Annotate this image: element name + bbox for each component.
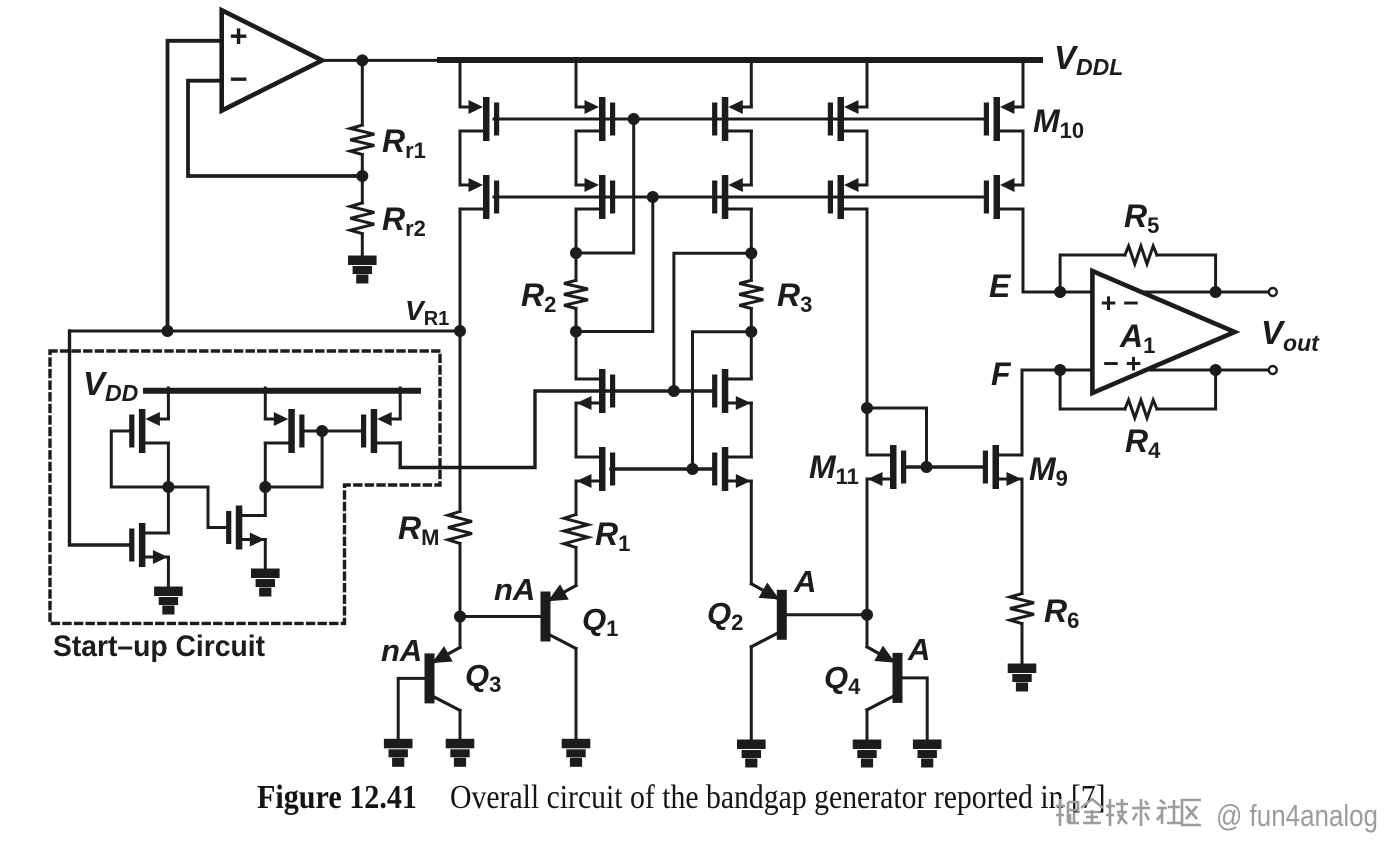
wire VDDL to mirror column 4 source — [866, 62, 869, 107]
resistor R6 — [1010, 594, 1034, 624]
resistor Rr1 — [350, 125, 374, 154]
wire node F to amplifier A1 — [1022, 369, 1092, 372]
svg-text:Start–up Circuit: Start–up Circuit — [53, 630, 265, 663]
wire RM bottom to Q1 base node — [459, 544, 462, 617]
wire M11-M9 gate bus — [906, 465, 983, 468]
wire lower-left nmos source to R1 — [575, 481, 578, 515]
wire R6 to ground — [1021, 624, 1024, 665]
wire R2 bottom down to nmos cascode drain — [575, 309, 578, 379]
wire R3 bottom tap to nmos gate bus row2 — [693, 332, 752, 469]
wire R5 feedback loop — [1060, 255, 1216, 292]
wire pmos A drain to node X — [167, 443, 170, 487]
watermark — [1056, 798, 1378, 833]
nmos cascode upper right — [712, 369, 751, 413]
node R3 bottom — [745, 326, 757, 338]
transistor Q4 — [867, 647, 901, 710]
svg-text:Rr2: Rr2 — [382, 201, 426, 241]
resistor R5 — [1125, 246, 1157, 264]
wire pmos B drain to node Y — [264, 443, 267, 487]
pmos mirror row2 col2 — [576, 175, 615, 219]
wire Rr1 to Rr2 — [361, 155, 364, 203]
wire A1 top output — [1140, 291, 1269, 294]
wire col3 row2 drain down to R3 top — [750, 209, 753, 280]
ground below Q4 collector — [854, 741, 880, 766]
svg-text:R4: R4 — [1125, 423, 1161, 463]
svg-text:+: + — [229, 19, 247, 54]
svg-text:−: − — [229, 62, 247, 97]
transistor M9 — [983, 445, 1022, 489]
svg-text:nA: nA — [381, 633, 422, 668]
wire upper-right nmos source to lower drain — [750, 403, 753, 457]
node M11 gate — [921, 461, 933, 473]
svg-text:R2: R2 — [521, 277, 556, 317]
svg-text:R1: R1 — [595, 516, 630, 556]
svg-text:VDD: VDD — [83, 365, 138, 406]
svg-text:A: A — [793, 564, 816, 599]
svg-text:M9: M9 — [1029, 451, 1068, 491]
resistor Rr2 — [350, 203, 374, 234]
wire VR1 down-left into start-up nmos gate — [70, 331, 130, 545]
wire op-amp - input feedback from Rr1/Rr2 tap — [188, 81, 362, 176]
wire pmos A gate loop to node X — [111, 431, 168, 487]
wire R3 top tap to nmos gate bus row1 — [674, 253, 751, 391]
wire node Y up to pmos B gate — [265, 431, 322, 487]
wire nmos C drain to node Y — [264, 487, 267, 516]
wire R4 feedback loop — [1060, 370, 1216, 409]
transistor M11 — [867, 445, 906, 489]
svg-text:VR1: VR1 — [405, 295, 449, 330]
wire nmos C source to ground — [264, 540, 267, 571]
svg-text:Overall circuit of the bandgap: Overall circuit of the bandgap generator… — [450, 779, 1113, 816]
wire R2 bottom tap up to gate bus row2 — [576, 197, 653, 332]
wire col3 row1 drain to row2 source — [750, 131, 753, 185]
pmos mirror row2 col3 — [712, 175, 751, 219]
wire VR1 horizontal — [70, 330, 461, 333]
wire A1 bottom output — [1144, 369, 1269, 372]
svg-text:M10: M10 — [1033, 103, 1084, 143]
pmos M10 upper — [984, 97, 1023, 141]
svg-text:R5: R5 — [1124, 198, 1159, 238]
pmos mirror row2 col1 — [460, 175, 499, 219]
wire VDDL to mirror column 3 source — [750, 62, 753, 107]
pmos mirror row1 col2 — [576, 97, 615, 141]
nmos cascode lower left — [576, 447, 615, 491]
resistor R2 — [564, 280, 588, 308]
svg-text:−: − — [1123, 288, 1139, 318]
amplifier A1 — [1092, 271, 1234, 393]
nmos cascode lower right — [712, 447, 751, 491]
wire Q3 base to ground — [398, 678, 426, 740]
terminal bottom output — [1269, 366, 1277, 374]
svg-text:Q2: Q2 — [707, 596, 743, 635]
node RM bottom / Q1 base — [454, 611, 466, 623]
node nmos gate bus row1 — [668, 385, 680, 397]
resistor R1 — [564, 515, 588, 548]
wire node to Q1 base — [460, 615, 542, 618]
wire M11 drain-gate diode connection — [867, 408, 927, 467]
resistor R4 — [1125, 400, 1157, 418]
node gate bus row1 — [628, 113, 640, 125]
ground below Q3 base — [385, 740, 411, 765]
wire VDD to startup pmos A source — [167, 388, 170, 419]
wire col2 row1 drain to row2 source — [575, 131, 578, 185]
svg-text:VDDL: VDDL — [1054, 39, 1123, 80]
node VR1 at op-amp input column — [162, 325, 174, 337]
svg-text:@ fun4analog: @ fun4analog — [1216, 798, 1378, 833]
transistor Q2 — [751, 584, 785, 647]
wire op-amp + input to node VR1 — [168, 41, 223, 331]
power rail VDD in start-up — [146, 388, 418, 394]
node F — [1054, 364, 1066, 376]
op-amp U1 — [222, 10, 322, 110]
node R2 top — [570, 247, 582, 259]
wire nmos D source to ground — [167, 557, 170, 588]
wire node X to startup nmos C gate — [168, 487, 226, 528]
node VR1 at mirror column 1 — [454, 325, 466, 337]
wire M11 source down to Q4 emitter — [866, 479, 869, 647]
svg-text:+: + — [1101, 288, 1117, 318]
wire VDDL to M10 source — [1022, 62, 1025, 107]
dashed box start-up circuit — [50, 351, 440, 623]
pmos mirror row1 col4 — [828, 97, 867, 141]
wire nmos gate bus row2 — [611, 467, 714, 470]
wire pmos gate bus row1 — [494, 118, 984, 121]
wire M10 upper drain to lower source — [1022, 131, 1025, 185]
startup pmos C — [361, 409, 400, 453]
transistor Q3 — [426, 647, 460, 710]
node E — [1054, 286, 1066, 298]
ground below Q2 — [739, 741, 765, 766]
startup pmos A (diode-connected) — [129, 409, 168, 453]
startup pmos B (diode-connected) — [265, 409, 304, 453]
svg-text:Rr1: Rr1 — [382, 123, 426, 163]
node A1 bottom output — [1210, 364, 1222, 376]
node Y startup — [259, 481, 271, 493]
wire col2 row2 drain down to R2 top — [575, 209, 578, 280]
wire R1 bottom to Q1 emitter — [575, 548, 578, 586]
pmos mirror row2 col4 — [828, 175, 867, 219]
node op-amp output — [356, 54, 368, 66]
svg-text:A: A — [907, 632, 930, 667]
transistor Q1 — [542, 586, 576, 649]
startup nmos C — [226, 506, 265, 550]
node nmos gate bus row2 — [687, 463, 699, 475]
wire Q2 base to M11 source column — [785, 613, 867, 616]
svg-text:Figure 12.41: Figure 12.41 — [257, 779, 417, 816]
node M11 drain tap — [861, 402, 873, 414]
wire lower-right nmos source down to Q2 emitter — [750, 481, 753, 584]
pmos mirror row1 col3 — [712, 97, 751, 141]
ground below nmos C — [252, 570, 278, 595]
wire Q4 collector to ground — [866, 710, 869, 741]
node X startup — [162, 481, 174, 493]
wire VDD to startup pmos C source — [399, 388, 402, 419]
node Rr1/Rr2 tap — [356, 170, 368, 182]
wire upper-left nmos source to lower drain — [575, 403, 578, 457]
power rail VDDL — [440, 57, 1040, 63]
terminal top output — [1269, 288, 1277, 296]
wire op-amp output to VDDL rail — [322, 59, 443, 62]
wire R2 top tap up to gate bus row1 — [576, 119, 634, 253]
svg-text:RM: RM — [398, 510, 439, 550]
ground below Rr2 — [350, 257, 376, 282]
wire Rr2 to ground — [361, 234, 364, 257]
wire VDD to startup pmos B source — [264, 388, 267, 419]
ground below R6 — [1009, 665, 1035, 690]
svg-text:Q3: Q3 — [465, 658, 501, 697]
resistor RM — [448, 512, 472, 544]
wire Q1 collector to ground — [575, 649, 578, 741]
wire Q3 collector to ground — [459, 710, 462, 740]
wire node down to Q3 emitter — [459, 617, 462, 648]
wire VDDL to mirror column 1 source — [459, 62, 462, 107]
wire M9 source down to R6 — [1021, 479, 1024, 594]
wire nmos D drain to node X — [167, 487, 170, 533]
ground below Q1 — [563, 740, 589, 765]
node A1 top output — [1210, 286, 1222, 298]
wire VDDL to mirror column 2 source — [575, 62, 578, 107]
nmos cascode upper left — [576, 369, 615, 413]
wire Q2 collector to ground — [750, 647, 753, 741]
svg-text:Vout: Vout — [1261, 314, 1320, 356]
wire col4 row1 drain to row2 source — [866, 131, 869, 185]
resistor R3 — [739, 280, 763, 308]
node Q2 base / Q4 emitter — [861, 609, 873, 621]
wire op-amp output down to Rr1 — [361, 60, 364, 125]
svg-text:Q1: Q1 — [582, 602, 618, 641]
wire pmos gate bus row2 — [494, 196, 984, 199]
startup nmos D — [129, 523, 168, 567]
wire nmos gate bus row1 with start-up feed — [400, 391, 714, 468]
wire M9 drain up to node F — [1021, 370, 1024, 455]
wire col4 row2 drain down to M11 drain — [866, 209, 869, 455]
wire col1 row2 drain down to node VR1 and RM — [459, 209, 462, 512]
svg-text:F: F — [991, 356, 1012, 392]
node R3 top — [745, 247, 757, 259]
ground below Q4 base — [914, 741, 940, 766]
wire node E to amplifier A1 — [1023, 291, 1092, 294]
svg-text:nA: nA — [494, 572, 535, 607]
wire Q4 base to ground — [901, 678, 927, 741]
wire R3 bottom down to right nmos drain — [750, 309, 753, 379]
pmos M10 lower — [984, 175, 1023, 219]
svg-text:M11: M11 — [809, 449, 859, 489]
svg-text:R6: R6 — [1044, 593, 1079, 633]
wire col1 row1 drain to row2 source — [459, 131, 462, 185]
wire M10 drain down to node E — [1022, 209, 1025, 292]
wire pmos B gate to pmos C gate — [305, 430, 361, 433]
ground below Q3 collector — [447, 740, 473, 765]
svg-text:+: + — [1126, 349, 1142, 379]
svg-text:Q4: Q4 — [824, 660, 861, 699]
svg-text:R3: R3 — [777, 277, 812, 317]
ground below nmos D — [156, 588, 182, 613]
node R2 bottom — [570, 326, 582, 338]
node gate bus row2 — [647, 191, 659, 203]
pmos mirror row1 col1 — [460, 97, 499, 141]
svg-text:E: E — [989, 268, 1012, 304]
svg-text:−: − — [1103, 349, 1119, 379]
node pmos B gate — [316, 425, 328, 437]
